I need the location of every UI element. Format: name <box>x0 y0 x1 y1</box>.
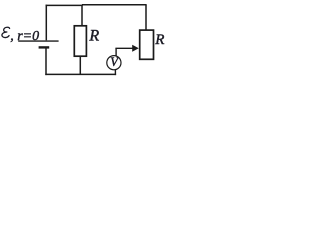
wire left lower <box>45 47 47 75</box>
wiper arrowhead <box>132 45 139 52</box>
svg-text:R: R <box>154 32 164 48</box>
wire right lead <box>145 5 147 30</box>
EMF script-E glyph <box>2 27 10 37</box>
svg-text:V: V <box>110 55 119 69</box>
wire stub voltmeter top <box>115 48 117 56</box>
resistor R middle <box>74 26 86 56</box>
wire bottom <box>45 73 116 75</box>
resistor R right (rheostat) <box>140 30 154 59</box>
battery short plate (negative) <box>39 46 50 48</box>
voltmeter U1 circle <box>107 56 121 70</box>
battery long plate (positive) <box>18 40 58 42</box>
wire mid top lead <box>81 5 83 26</box>
wire mid bottom lead <box>79 57 81 75</box>
svg-text:, r=0: , r=0 <box>10 29 39 44</box>
wire wiper horizontal <box>115 47 133 49</box>
wire left upper <box>45 5 47 41</box>
wire top left segment <box>46 4 83 6</box>
wire top right segment <box>82 4 147 6</box>
svg-text:R: R <box>88 27 99 44</box>
wire stub voltmeter bottom <box>114 70 116 75</box>
